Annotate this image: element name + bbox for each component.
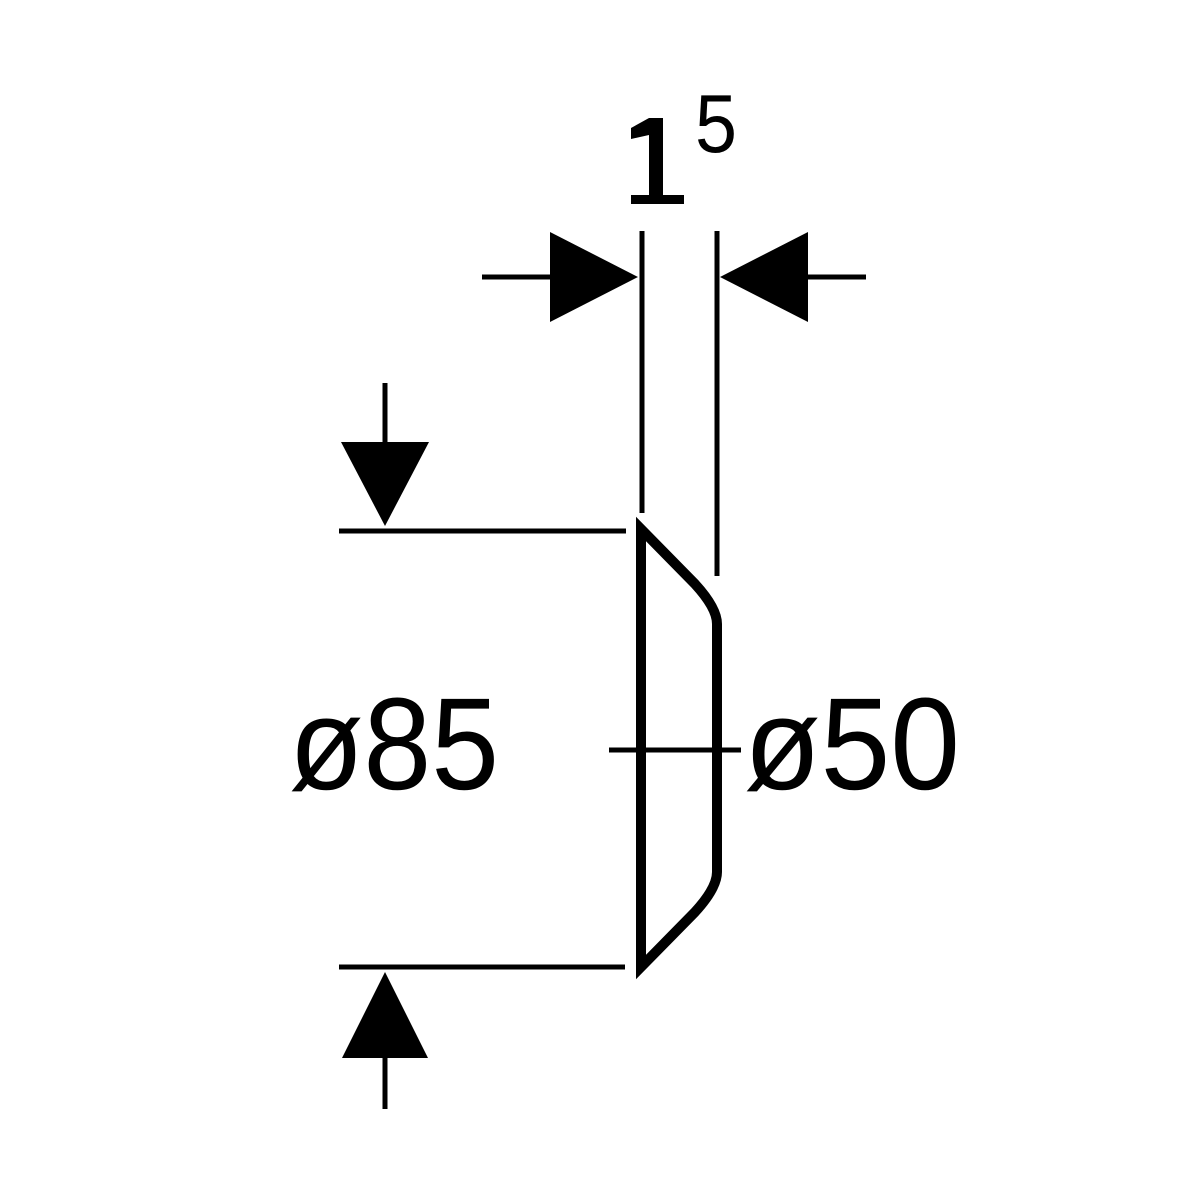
svg-text:ø85: ø85: [289, 670, 499, 817]
svg-text:ø50: ø50: [744, 670, 960, 817]
svg-text:5: 5: [695, 77, 737, 170]
